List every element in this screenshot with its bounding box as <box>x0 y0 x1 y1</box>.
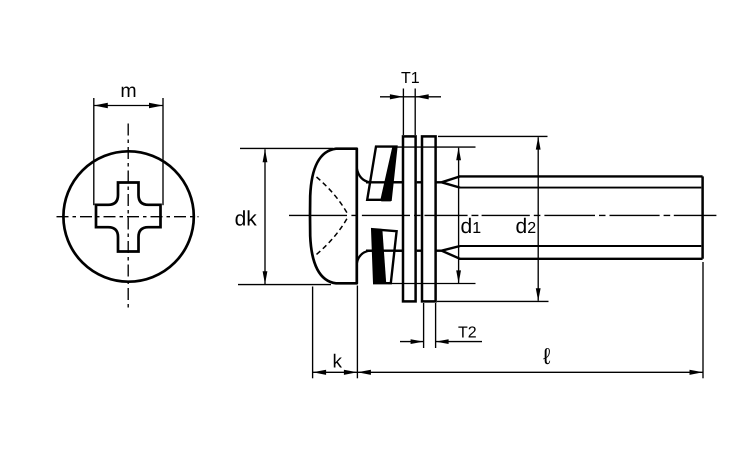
under-head fillet top <box>357 168 370 182</box>
hidden recess depth lines (dashed) <box>317 177 348 214</box>
T1 dimension line <box>380 96 403 98</box>
dk arrows <box>263 149 268 162</box>
T1 arrows (outside, pointing inward) <box>390 94 404 99</box>
spring washer lower section <box>372 229 396 283</box>
arrowheads <box>263 94 703 375</box>
d1 extension lines <box>397 146 476 148</box>
k arrows <box>313 370 327 375</box>
flat washer W1 (thickness T1) <box>403 136 416 301</box>
thread root lines <box>460 187 702 189</box>
dimension m: extension lines <box>93 98 95 205</box>
under-head fillet bottom <box>357 251 370 264</box>
T2 arrows (outside, pointing inward) <box>411 339 424 344</box>
shank segments in gaps (wire) <box>417 176 460 258</box>
k / l dimension line <box>313 371 358 373</box>
dk extension lines <box>240 147 333 149</box>
horizontal centerline (front view) <box>57 216 199 218</box>
vertical centerline (front view) <box>127 124 129 310</box>
dk dimension line <box>264 149 266 284</box>
screw shank lines under head (wire) <box>366 182 403 250</box>
l right extension <box>702 262 704 378</box>
svg-text:T1: T1 <box>401 70 420 87</box>
flat washer W2 (thickness T2) <box>422 136 436 301</box>
T2 extension lines <box>423 303 425 348</box>
svg-text:dk: dk <box>235 208 258 231</box>
d2 arrows <box>536 137 541 150</box>
head outline circle (front view) <box>63 151 193 281</box>
svg-text:k: k <box>332 351 342 372</box>
svg-text:T2: T2 <box>458 324 477 341</box>
spring washer upper section <box>367 147 396 202</box>
l arrows <box>357 370 371 375</box>
T2 dimension line <box>400 341 424 343</box>
d1 arrows <box>456 147 461 160</box>
svg-text:m: m <box>120 80 136 102</box>
thread runout V top <box>442 176 460 182</box>
main axis centerline (side view) <box>289 214 716 216</box>
d2 dimension line <box>537 137 539 301</box>
dimension m: dimension line with arrows <box>94 105 163 107</box>
pan head (side view) <box>310 149 357 284</box>
shaft end face <box>701 176 704 258</box>
phillips recess cross (front view) <box>96 183 161 252</box>
svg-text:ℓ: ℓ <box>543 343 551 369</box>
d2 extension lines <box>438 135 548 137</box>
thread crest lines <box>459 175 703 177</box>
shank line segments crossing spring washer (wire) <box>366 181 403 183</box>
d1 dimension line <box>458 148 460 283</box>
k extension lines <box>312 287 314 379</box>
thread runout V bottom <box>442 251 460 259</box>
T1 extension lines <box>402 89 404 136</box>
